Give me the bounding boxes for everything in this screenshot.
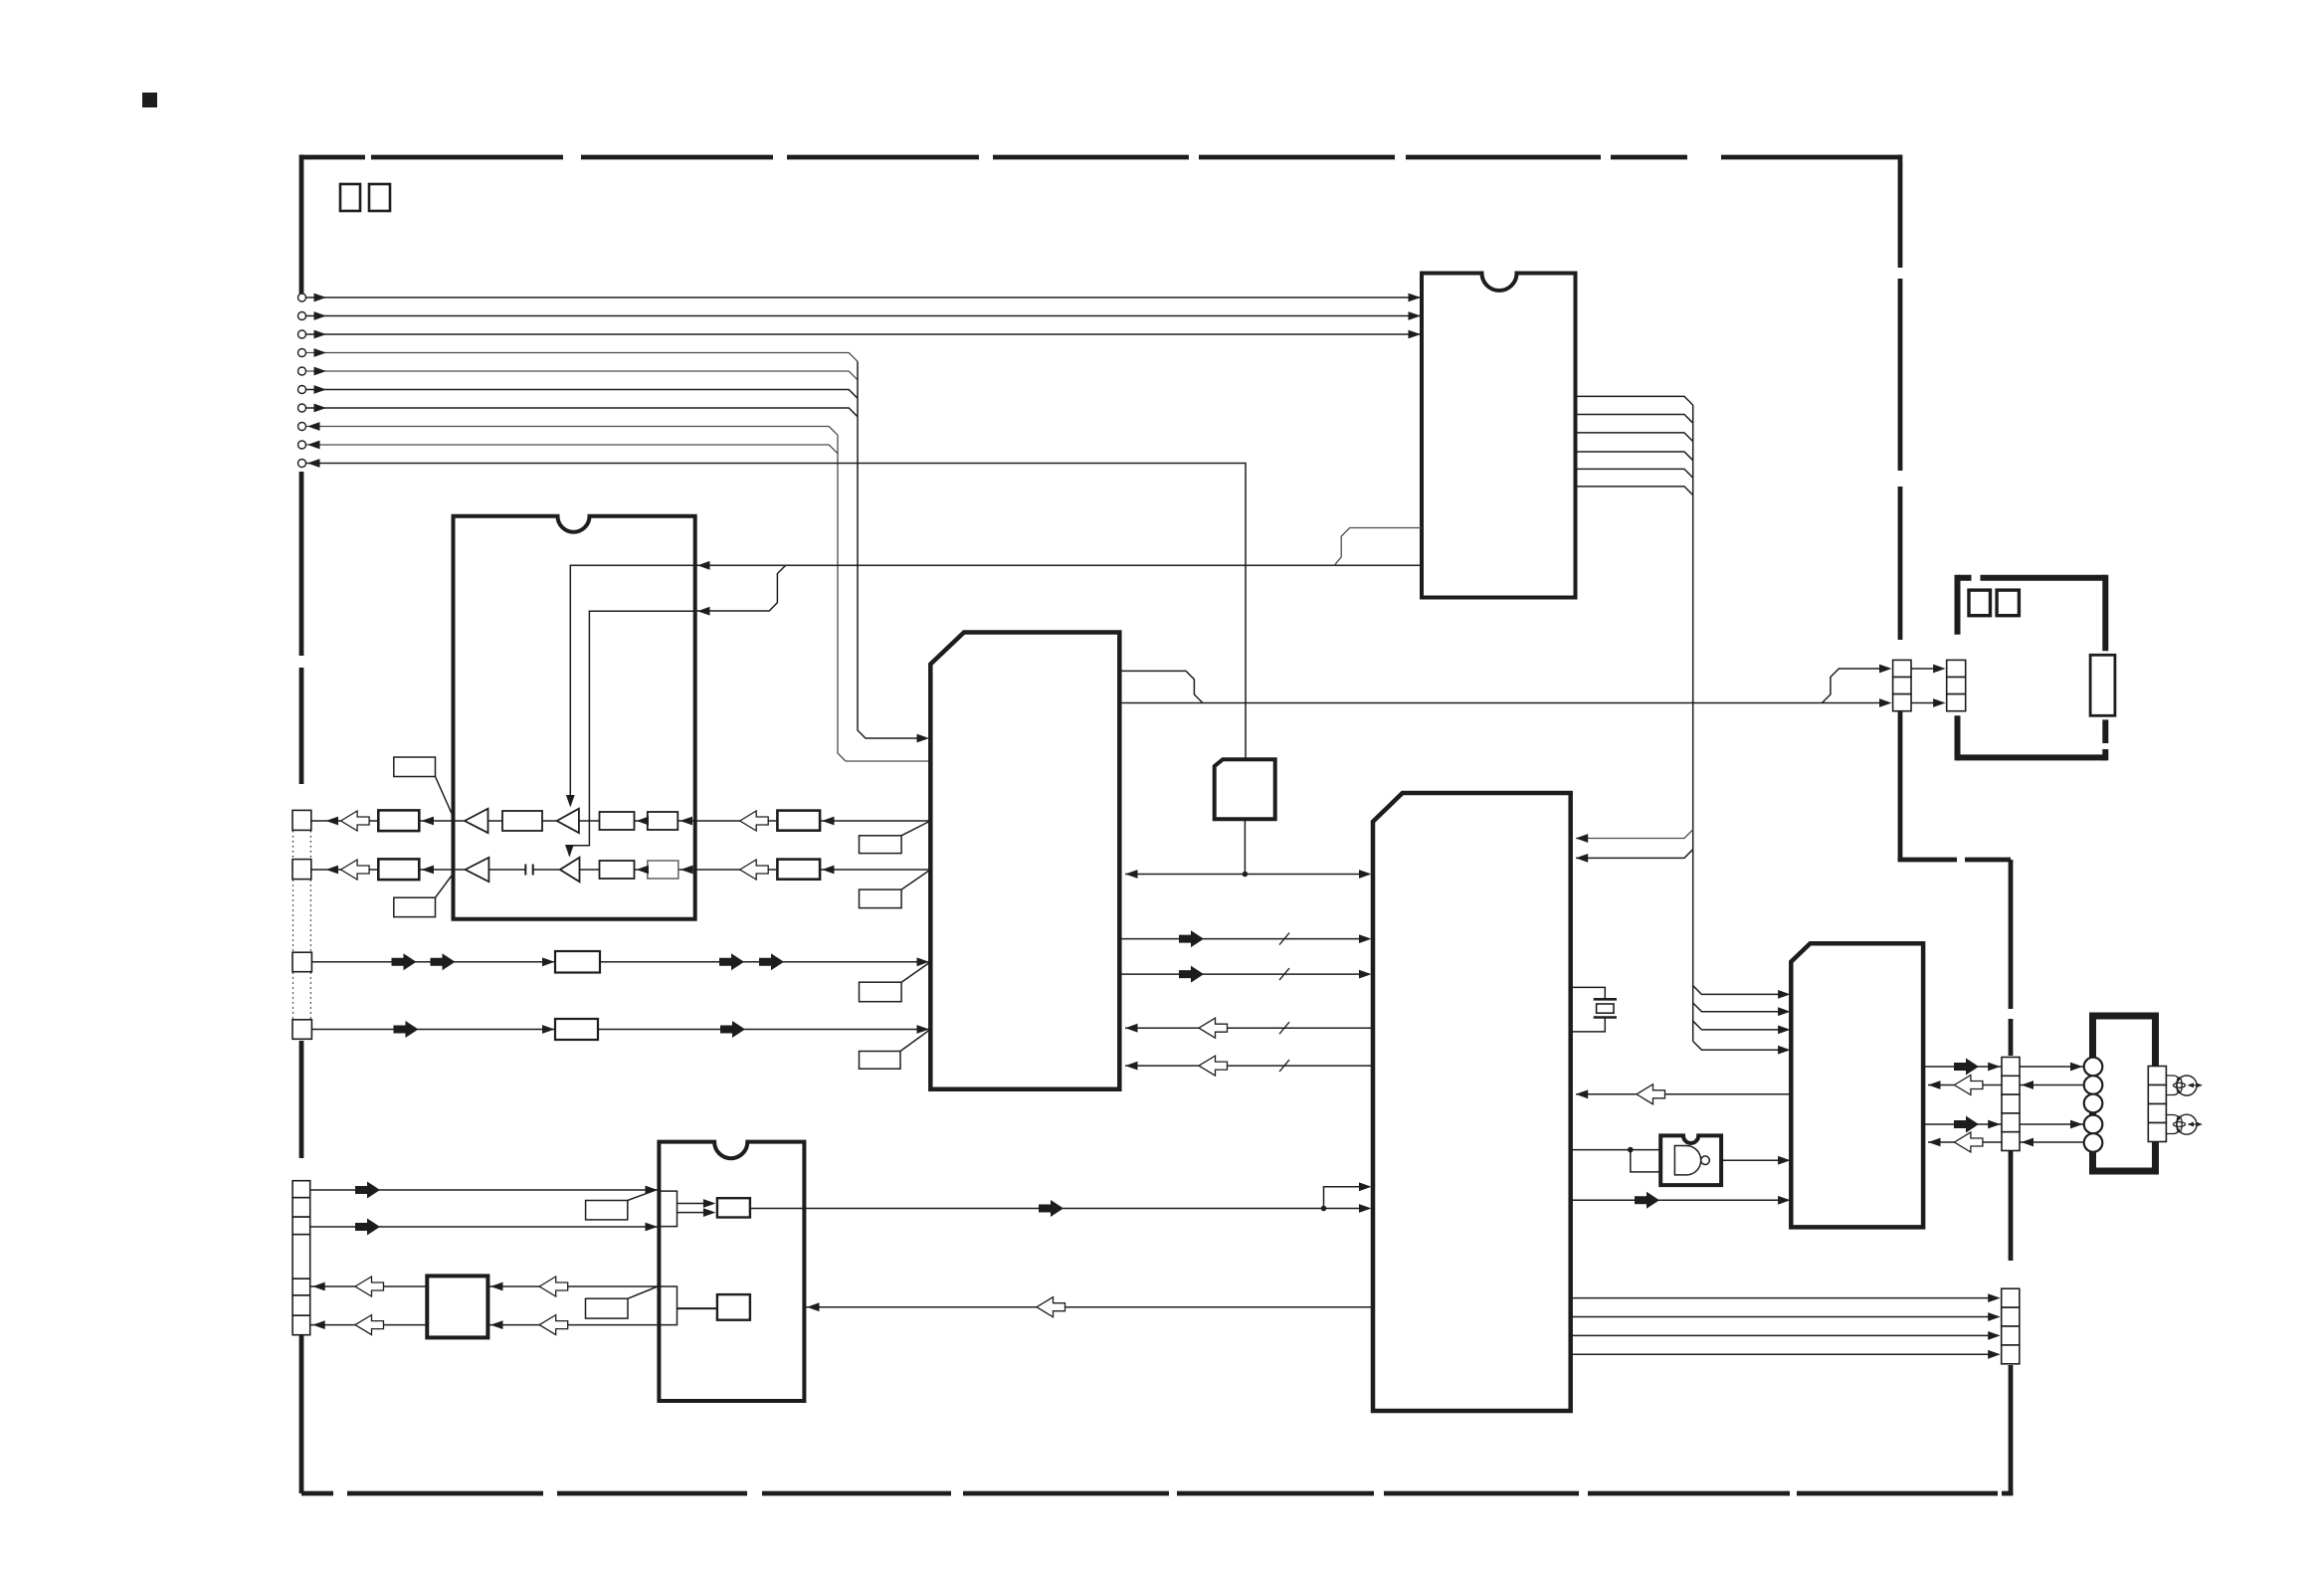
- connector strip BL cell4: [292, 1235, 310, 1280]
- arrowhead line7 at circle: [314, 404, 327, 413]
- motor winding circle 4: [2084, 1115, 2103, 1134]
- wire U302 to motor circle1 y1072: [1923, 1066, 2084, 1068]
- arrowhead into TR connector row3: [1879, 698, 1892, 707]
- connector strip BR cell4: [2002, 1345, 2020, 1364]
- op-amp A2: [557, 809, 579, 833]
- label box L6: [860, 1052, 901, 1070]
- arrowhead into connector box B: [326, 866, 339, 875]
- block R2L: [378, 859, 419, 880]
- open arrow y1090.5: [1954, 1076, 1983, 1095]
- connector strip BR cell3: [2002, 1326, 2020, 1345]
- motor winding circle 3: [2084, 1094, 2103, 1113]
- arrowhead into R1b: [637, 817, 650, 826]
- arrowhead y979.1 into U301: [1359, 970, 1372, 979]
- block R1o (right of IC1): [777, 811, 820, 831]
- fat arrow y979.1: [1179, 966, 1204, 983]
- arrowhead y1099.8 into U301: [1576, 1089, 1589, 1098]
- connector strip BL cell3: [292, 1217, 310, 1235]
- leader line L5: [901, 962, 930, 982]
- wire internal B from right edge down to amp: [569, 611, 694, 856]
- bus slash marks: [1279, 933, 1289, 1073]
- arrowhead row D into connector: [312, 1320, 325, 1329]
- wire bus branch right to U302 y1016.7: [1693, 1003, 1786, 1012]
- arrowhead y943.6 into U301: [1359, 934, 1372, 943]
- leader line L2 to IC1: [436, 874, 454, 897]
- board name label box 1 (tofu): [340, 184, 360, 211]
- wire U301 to U302 y1206.3: [1571, 1199, 1786, 1201]
- wire IC2 output 3: [1576, 433, 1693, 442]
- wire between connector strips row3: [1911, 702, 1940, 704]
- open arrow y1099.8: [1637, 1084, 1665, 1104]
- arrowhead wireB inside IC1: [697, 607, 710, 616]
- arrowhead row D into FB: [490, 1320, 503, 1329]
- resistor component on sub-board right edge: [2090, 655, 2115, 715]
- leader line L4: [901, 870, 930, 889]
- wire IC2 output 5: [1576, 469, 1693, 478]
- wire bus branch right to U302 y1055.2: [1693, 1042, 1786, 1051]
- IC U102 (top-right DIP package): [1422, 274, 1576, 598]
- wire line7: [306, 408, 858, 417]
- wire row3 connector to central block: [311, 961, 930, 963]
- IC U302 (right block): [1791, 943, 1923, 1227]
- arrowhead line9 into circle: [307, 441, 320, 450]
- wire row B connector to IC3: [310, 1226, 660, 1228]
- open arrow y1313.7: [1037, 1297, 1065, 1317]
- arrowhead bus into U302 y1055.2: [1778, 1046, 1791, 1055]
- arrowhead wireA inside IC1: [697, 561, 710, 570]
- connector strip TR cell1: [1893, 660, 1911, 677]
- wire internal A from right edge down to amp: [570, 565, 694, 804]
- wire U201 out A y674 jog: [1119, 671, 1203, 702]
- arrowhead into R1o: [822, 817, 835, 826]
- arrowhead y1071.1 into U201: [1125, 1062, 1138, 1071]
- fat arrow row3 a: [392, 953, 417, 970]
- arrowhead y878.5 into U201: [1125, 870, 1138, 879]
- connector strip R cell4: [2002, 1113, 2020, 1132]
- arrowhead wireA down into A2: [566, 795, 575, 808]
- wire row A connector to IC3: [310, 1189, 660, 1191]
- arrowhead into R3: [542, 957, 555, 966]
- connector pin circle 3: [298, 330, 306, 338]
- open arrow row1 left: [341, 811, 370, 831]
- connector pin circle 6: [298, 386, 306, 394]
- fat arrow row4 a: [394, 1021, 419, 1038]
- wire U302 to motor circle4 y1130: [1923, 1123, 2084, 1125]
- block IB2 inside IC3: [717, 1294, 750, 1320]
- open arrow row C b: [539, 1277, 568, 1296]
- arrowhead wireB down into A4: [565, 845, 574, 858]
- open arrow row C a: [355, 1277, 384, 1296]
- arrowhead into R1c: [680, 817, 693, 826]
- connector pin circle 10: [298, 460, 306, 468]
- connector strip BR cell1: [2002, 1288, 2020, 1307]
- filter block FB (bottom left): [427, 1276, 487, 1337]
- arrowheads internal feeds into IB1: [703, 1199, 716, 1208]
- jack 2 arrowheads: [2188, 1122, 2195, 1127]
- connector box D: [292, 1020, 311, 1040]
- connector strip BL cell6: [292, 1295, 310, 1315]
- connector strip R cell5: [2002, 1132, 2020, 1151]
- wire row D IC3 to connector: [310, 1324, 660, 1326]
- leader line L6: [900, 1030, 930, 1052]
- arrowhead line2 into IC2: [1409, 311, 1422, 320]
- wire IC3 to U301 y1214.5: [750, 1208, 1324, 1210]
- arrowhead row3 into central block: [917, 957, 930, 966]
- connector pin circle 4: [298, 349, 306, 357]
- NAND gate symbol: [1674, 1146, 1700, 1175]
- junction dot NAND input: [1628, 1147, 1634, 1153]
- wire U201 to U301 y979.1: [1119, 973, 1367, 975]
- wire line9: [306, 445, 838, 454]
- connector strip R cell3: [2002, 1094, 2020, 1113]
- block R4 (row4): [555, 1019, 598, 1040]
- dotted connector strip right side: [309, 831, 311, 1019]
- IC U401 (bottom DIP package): [659, 1142, 804, 1401]
- fat arrow y1206.3: [1635, 1192, 1659, 1209]
- label box L3: [860, 836, 902, 854]
- connector pin circle 7: [298, 404, 306, 412]
- wire line10 long to small block: [306, 464, 1246, 760]
- block R3 (row3): [555, 951, 600, 973]
- leader line L8: [628, 1286, 658, 1298]
- arrowhead row B into IC3: [646, 1223, 659, 1232]
- arrowhead into TR connector2 row1: [1933, 665, 1946, 674]
- wire row1 through IC1: [311, 820, 465, 822]
- op-amp A3: [466, 858, 489, 882]
- wire bidirectional U201 to U301 y878.5: [1125, 874, 1367, 876]
- arrowhead line3 at circle: [314, 330, 327, 339]
- connector strip R cell1: [2002, 1058, 2020, 1077]
- arrowhead line2 at circle: [314, 311, 327, 320]
- IC3 internal feed line lower: [678, 1307, 717, 1309]
- wire line3 to IC2: [306, 333, 1420, 335]
- label box L2: [394, 897, 436, 916]
- wire branch jog up to connector cell1: [1822, 669, 1886, 703]
- wire bus branch left to U301 y842.5: [1576, 830, 1693, 839]
- leader line L7: [628, 1190, 656, 1200]
- wire row2 through IC1: [311, 869, 466, 871]
- arrowhead NAND out into U302: [1778, 1156, 1791, 1165]
- arrowhead line6 at circle: [314, 385, 327, 394]
- leader line L1 to IC1: [436, 777, 454, 818]
- wire bus vertical x842 down to central block: [838, 435, 930, 761]
- NAND gate box IC301: [1660, 1135, 1721, 1185]
- connector strip M cell1: [2148, 1067, 2166, 1085]
- IC U101 (left DIP package): [454, 516, 695, 919]
- wire line2 to IC2: [306, 315, 1420, 317]
- connector strip BR cell2: [2002, 1307, 2020, 1326]
- arrowhead row C into FB: [490, 1282, 503, 1291]
- fat arrow y1130: [1954, 1116, 1979, 1133]
- IC3 internal feed lines to block: [678, 1204, 712, 1213]
- label box L5: [860, 982, 902, 1002]
- connector box A: [292, 810, 311, 830]
- arrowhead y1130 into circle4: [2070, 1120, 2083, 1129]
- arrowhead bus into U301 y842.5: [1576, 834, 1589, 843]
- motor winding circle 2: [2084, 1076, 2103, 1094]
- arrowhead into TR connector row1: [1879, 665, 1892, 674]
- motor winding circle 5: [2084, 1133, 2103, 1152]
- leader line L3: [901, 821, 930, 836]
- connector strip BL cell2: [292, 1198, 310, 1217]
- open arrow row2 right pair: [740, 860, 769, 880]
- arrowhead into TR connector2 row3: [1933, 698, 1946, 707]
- connector strip TR cell2: [1893, 678, 1911, 694]
- wire small block drop to junction: [1244, 819, 1246, 874]
- motor M301 (thick box): [2093, 1016, 2156, 1171]
- block R1a: [502, 811, 542, 831]
- arrowhead y1214.5 into U301: [1359, 1204, 1372, 1213]
- wire U302 to U301 y1099.8: [1576, 1093, 1791, 1095]
- arrowhead y878.5 into U301: [1359, 870, 1372, 879]
- title bullet square: [142, 93, 157, 107]
- arrowhead into R2b: [637, 866, 650, 875]
- connector strip TR2 cell3: [1947, 694, 1966, 711]
- fat arrow row4 b: [720, 1021, 745, 1038]
- IC3 internal bracket lower: [659, 1286, 677, 1325]
- arrowhead line10 into circle: [307, 459, 320, 468]
- fat arrow y1072: [1954, 1059, 1979, 1076]
- sub-board label box 2 (tofu): [1997, 590, 2019, 616]
- fat arrow row3 d: [759, 953, 784, 970]
- wire row C IC3 to connector: [310, 1285, 660, 1287]
- connector strip TR2 cell2: [1947, 678, 1966, 694]
- wire IC2 output 4: [1576, 452, 1693, 461]
- block R1b: [600, 812, 635, 830]
- jack symbol 2 stubs: [2166, 1115, 2179, 1134]
- connector pin circle 8: [298, 423, 306, 431]
- sub-board frame (top right): [1958, 575, 2106, 761]
- arrowhead y1090.5 into connector right: [2022, 1081, 2034, 1089]
- connector strip M cell4: [2148, 1123, 2166, 1142]
- open arrow y1148: [1954, 1132, 1983, 1152]
- block IB1 inside IC3: [717, 1198, 750, 1217]
- arrowhead y1033.2 into U201: [1125, 1024, 1138, 1033]
- block R1c: [648, 812, 678, 830]
- capacitor C row2: [525, 865, 532, 876]
- connector strip M cell3: [2148, 1104, 2166, 1123]
- arrowhead row4 into central block: [917, 1025, 930, 1034]
- wire between connector strips row1: [1911, 668, 1940, 670]
- arrowhead line4 at circle: [314, 348, 327, 357]
- block R2c: [648, 861, 678, 879]
- jack symbol 1 stubs: [2166, 1076, 2179, 1095]
- block R1L (outside left of IC1): [378, 810, 419, 831]
- arrowhead bus into U302 y999.4: [1778, 990, 1791, 999]
- NAND bubble: [1701, 1156, 1710, 1165]
- arrowhead into R2L: [422, 866, 435, 875]
- junction dot IC3 output branch: [1321, 1206, 1327, 1212]
- left input connector circles and wires: [306, 297, 1420, 761]
- arrowhead y1206.3 into U302: [1778, 1196, 1791, 1205]
- crystal X301 body: [1597, 1004, 1614, 1013]
- open arrow row2 left: [341, 860, 370, 880]
- wire U201 out B y706.5 to top-right connector: [1119, 702, 1886, 704]
- wire line6: [306, 390, 858, 399]
- jack symbol 1 arrow line: [2189, 1084, 2202, 1086]
- arrowhead y1192.8 into U301: [1359, 1182, 1372, 1191]
- sub-board label box 1 (tofu): [1969, 590, 1991, 616]
- connector box C: [292, 952, 311, 972]
- wire branch up to U301 y1192.8: [1324, 1187, 1368, 1209]
- op-amp A4: [560, 858, 580, 882]
- wire line5: [306, 371, 858, 380]
- wire NAND input branch: [1631, 1150, 1675, 1172]
- wire bus branch left to U301 y862.4: [1576, 850, 1693, 859]
- wire line4: [306, 353, 858, 362]
- wire line1 to IC2: [306, 296, 1420, 298]
- connector strip TR cell3: [1893, 694, 1911, 711]
- open arrow row1 right pair: [740, 811, 769, 831]
- fat arrow y943.6: [1179, 930, 1204, 947]
- arrowheads 4 outputs into BR connector: [1988, 1293, 2001, 1302]
- arrowhead into R1L: [422, 817, 435, 826]
- arrowhead into R2c: [680, 866, 693, 875]
- jack symbol 2 petals: [2177, 1116, 2182, 1132]
- open arrow y1033.2: [1199, 1018, 1228, 1038]
- jack symbol 2 arrow line: [2189, 1123, 2202, 1125]
- op-amp A1: [465, 809, 488, 833]
- label box L1: [394, 757, 436, 777]
- junction dot at small block line: [1243, 872, 1249, 878]
- wire row4 connector to central block: [311, 1029, 930, 1031]
- connector pin circle 5: [298, 367, 306, 375]
- connector pin circle 9: [298, 441, 306, 449]
- wire motor circle5 to U302 y1148: [1928, 1141, 2084, 1143]
- wire U301 to U201 y1071.1: [1125, 1065, 1373, 1067]
- arrowhead into R4: [542, 1025, 555, 1034]
- arrowhead line8 into circle: [307, 422, 320, 431]
- wire IC2 output 6: [1576, 487, 1693, 495]
- fat arrow row3 b: [431, 953, 456, 970]
- arrowhead bus862 into central block: [917, 734, 930, 743]
- wire U301 4 outputs to BR connector: [1571, 1298, 1995, 1355]
- arrowhead row A into IC3: [646, 1186, 659, 1195]
- wire bus vertical x862 down to central block: [858, 361, 922, 738]
- connector strip BL cell5: [292, 1279, 310, 1295]
- fat arrow row3 c: [719, 953, 744, 970]
- arrowhead line5 at circle: [314, 367, 327, 376]
- wire row1 IC1 to central block: [695, 820, 931, 822]
- wire bus branch right to U302 y999.4: [1693, 986, 1786, 995]
- connector strip BL cell1: [292, 1181, 310, 1198]
- jack symbol 2 circle: [2177, 1114, 2197, 1134]
- arrowhead y1313.7 into IC3: [807, 1302, 820, 1311]
- IC U301 (large block): [1373, 793, 1571, 1411]
- IC U201 (central main block): [930, 633, 1119, 1089]
- fat arrow row B: [355, 1219, 380, 1236]
- wire U301 to U201 y1033.2: [1125, 1027, 1373, 1029]
- arrowhead into R2o: [822, 866, 835, 875]
- label box L8: [586, 1298, 629, 1318]
- fat arrow row A: [355, 1182, 380, 1199]
- arrowhead y1072 into circle1: [2070, 1063, 2083, 1072]
- wire IC2 output 1: [1576, 396, 1693, 405]
- arrowhead y1130 into connector: [1988, 1120, 2001, 1129]
- open arrow y1071.1: [1199, 1056, 1228, 1076]
- arrowhead line1 into IC2: [1409, 294, 1422, 302]
- motor winding circle 1: [2084, 1058, 2103, 1077]
- block R2b: [600, 861, 635, 879]
- wire U301 to IC3 y1313.7: [750, 1306, 1373, 1308]
- board name label box 2 (tofu): [369, 184, 390, 211]
- wire motor circle2 to U302 y1090.5: [1928, 1084, 2084, 1086]
- crystal X301 plates: [1594, 999, 1617, 1017]
- wire y568 IC1 to IC2: [695, 564, 1422, 566]
- jack symbol 1 petals: [2177, 1078, 2182, 1093]
- wire line8: [306, 427, 838, 436]
- wire bus branch right to U302 y1034.9: [1693, 1021, 1786, 1030]
- wire gray jog up to IC2 pin y530: [1334, 528, 1422, 566]
- arrowhead into connector box A: [326, 817, 339, 826]
- arrowhead y1072 into connector: [1988, 1063, 2001, 1072]
- arrowhead y1148 into U302: [1928, 1138, 1941, 1147]
- wire U201 to U301 y943.6: [1119, 938, 1367, 940]
- connector strip BL cell7: [292, 1315, 310, 1335]
- wire IB1 out to right: [750, 1208, 805, 1210]
- label box L7: [586, 1201, 628, 1220]
- block R2o: [777, 860, 820, 880]
- arrowhead line1 at circle: [314, 294, 327, 302]
- arrowhead line3 into IC2: [1409, 330, 1422, 339]
- arrowhead y1148 into connector right: [2022, 1138, 2034, 1147]
- board frame dashed border (main board): [301, 155, 2014, 1494]
- arrowhead bus into U301 y862.4: [1576, 854, 1589, 863]
- jack 1 arrowheads: [2188, 1083, 2195, 1087]
- arrowhead y1090.5 into U302: [1928, 1081, 1941, 1089]
- IC3 internal bracket upper: [659, 1191, 677, 1227]
- wire bus vertical x1701.7: [1692, 405, 1694, 1041]
- open arrow row D b: [539, 1315, 568, 1335]
- crystal X301 stubs: [1571, 987, 1606, 1032]
- dotted connector strip left side: [292, 831, 294, 1019]
- fat arrow y1214.5: [1039, 1200, 1064, 1217]
- arrowhead row C into connector: [312, 1282, 325, 1291]
- wire branch jog from y568 down to IC pin y614: [695, 565, 786, 611]
- wire row2 IC1 to central block: [695, 869, 931, 871]
- connector strip TR2 cell1: [1947, 660, 1966, 677]
- jack symbol 1 circle: [2177, 1076, 2197, 1095]
- connector pin circle 2: [298, 312, 306, 320]
- arrowhead bus into U302 y1034.9: [1778, 1026, 1791, 1035]
- wire NAND output to U302: [1710, 1159, 1786, 1161]
- label box L4: [860, 889, 902, 908]
- wire U301 to NAND input: [1571, 1149, 1675, 1151]
- connector strip M cell2: [2148, 1085, 2166, 1104]
- connector pin circle 1: [298, 294, 306, 301]
- open arrow row D a: [355, 1315, 384, 1335]
- IC U202 (small block): [1215, 759, 1275, 819]
- connector box B: [292, 860, 311, 880]
- arrowhead bus into U302 y1016.7: [1778, 1007, 1791, 1016]
- wire IC2 output 2: [1576, 415, 1693, 424]
- connector strip R cell2: [2002, 1076, 2020, 1094]
